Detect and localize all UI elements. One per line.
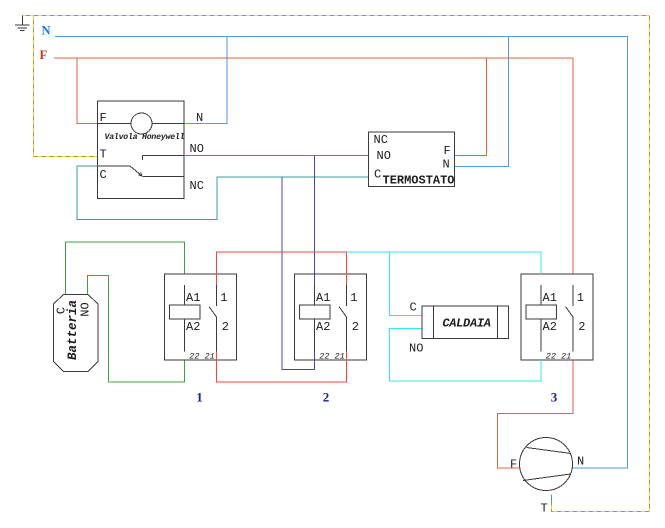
svg-text:N: N bbox=[196, 111, 203, 125]
svg-text:2: 2 bbox=[323, 390, 330, 405]
relay K1 bbox=[165, 274, 237, 362]
wire cyan boiler NO to relay K3 A2 bbox=[390, 329, 542, 382]
wire cyan branch to boiler C bbox=[390, 252, 423, 316]
svg-text:22 21: 22 21 bbox=[546, 352, 572, 362]
wire red contact ring K1-K2 bottom bbox=[217, 352, 347, 383]
svg-text:A2: A2 bbox=[543, 320, 557, 334]
wire cyan top rail to relay K3 A1 bbox=[347, 252, 542, 274]
valve C-NC switch blade bbox=[98, 166, 185, 177]
boiler CALDAIA bbox=[409, 301, 509, 356]
svg-text:2: 2 bbox=[578, 320, 585, 334]
thermostat U1 TERMOSTATO bbox=[369, 132, 455, 188]
svg-text:C: C bbox=[410, 301, 417, 315]
wire F to valve bbox=[77, 58, 98, 124]
svg-text:1: 1 bbox=[220, 291, 227, 305]
svg-text:A1: A1 bbox=[186, 291, 200, 305]
valve V1 Valvola Honeywell bbox=[98, 101, 204, 199]
svg-text:1: 1 bbox=[350, 291, 357, 305]
svg-text:C: C bbox=[374, 168, 381, 182]
svg-text:F: F bbox=[100, 111, 107, 125]
svg-text:N: N bbox=[577, 455, 584, 469]
wire battery C to relay K1 A1 (green) bbox=[66, 242, 185, 294]
svg-text:NO: NO bbox=[190, 142, 204, 156]
svg-text:F: F bbox=[510, 458, 517, 472]
valve NO contact bbox=[143, 156, 185, 161]
wire valve C to thermostat C (teal) bbox=[77, 166, 369, 220]
svg-text:1: 1 bbox=[577, 291, 584, 305]
wire N to thermostat bbox=[455, 37, 509, 167]
svg-text:F: F bbox=[444, 144, 451, 158]
wire valve NO to thermostat NO (magenta) bbox=[184, 155, 369, 157]
wire thermostat NO tap to relay K2 A1 (dark blue) bbox=[314, 156, 316, 286]
wire F main rail bbox=[54, 58, 573, 274]
svg-text:Batteria: Batteria bbox=[66, 300, 80, 360]
battery B1 bbox=[54, 295, 99, 372]
svg-text:A1: A1 bbox=[316, 291, 330, 305]
svg-text:N: N bbox=[443, 158, 450, 172]
svg-text:CALDAIA: CALDAIA bbox=[442, 317, 490, 331]
svg-text:Valvola Honeywell: Valvola Honeywell bbox=[105, 132, 185, 142]
svg-text:A2: A2 bbox=[186, 320, 200, 334]
relay K2 bbox=[295, 274, 367, 362]
svg-text:T: T bbox=[100, 148, 107, 162]
wire N main rail bbox=[55, 37, 628, 469]
wire F to thermostat bbox=[455, 58, 487, 156]
wire battery NO to relay K1 A2 (green) bbox=[88, 276, 185, 383]
svg-text:NC: NC bbox=[374, 133, 388, 147]
wire N to valve bbox=[184, 37, 227, 124]
pump M1 bbox=[510, 438, 584, 516]
svg-text:NO: NO bbox=[409, 342, 423, 356]
wire red contact ring K1-K2 top bbox=[217, 252, 347, 285]
svg-text:F: F bbox=[40, 48, 48, 62]
svg-text:T: T bbox=[541, 502, 548, 516]
relay K3 bbox=[521, 274, 593, 362]
ground bbox=[15, 16, 30, 31]
svg-text:NO: NO bbox=[377, 149, 391, 163]
svg-text:NC: NC bbox=[190, 179, 204, 193]
svg-text:NO: NO bbox=[79, 302, 93, 316]
svg-text:1: 1 bbox=[196, 390, 203, 405]
svg-text:A2: A2 bbox=[316, 320, 330, 334]
svg-text:3: 3 bbox=[551, 390, 558, 405]
wire pump T tick (teal) bbox=[551, 495, 553, 502]
svg-text:2: 2 bbox=[222, 320, 229, 334]
svg-text:C: C bbox=[100, 168, 107, 182]
wire thermostat C tap to relay K2 A2 (dark blue) bbox=[282, 177, 315, 370]
svg-text:22 21: 22 21 bbox=[189, 352, 215, 362]
wire F relay3 contact to pump bbox=[498, 360, 574, 468]
svg-text:N: N bbox=[42, 24, 51, 38]
svg-text:A1: A1 bbox=[543, 291, 557, 305]
svg-text:2: 2 bbox=[352, 320, 359, 334]
svg-text:22 21: 22 21 bbox=[319, 352, 345, 362]
svg-text:TERMOSTATO: TERMOSTATO bbox=[383, 174, 455, 188]
